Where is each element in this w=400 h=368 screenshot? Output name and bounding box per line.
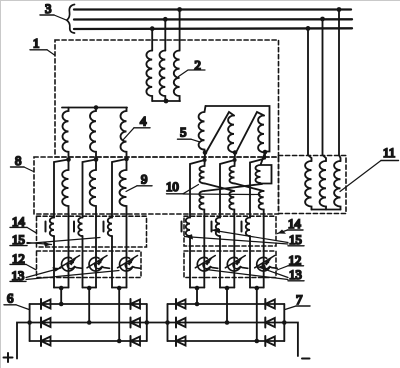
wire: right limb c bypass branch [250,152,265,288]
wire: limb a output drop [60,288,62,304]
svg-text:10: 10 [166,180,179,194]
wire: drop from L1 to winding 11 phase c [339,10,341,162]
winding 10 upper segment phase b [229,153,235,184]
wire: drop from L1 to winding 2 phase c [179,10,181,51]
winding 5 phase c [258,116,265,153]
saturable reactor 14 right limb a core bar [181,222,183,232]
saturable reactor 14 left limb a core bar [45,222,47,232]
wire: limb b output drop [88,288,90,323]
dashed box 14 left [37,216,147,247]
node: junction on L1 right [337,7,342,12]
control reactor 12 left limb b [87,256,110,272]
wire: right limb c pair joining bar [250,287,264,289]
wire: bridge 6 rail 3 [30,340,147,342]
saturable reactor 14 right limb c core bar [241,222,243,232]
dashed box 14 right [184,216,276,246]
wire: drop from L3 to winding 2 phase a [151,29,153,51]
wire: 3-phase bus line L3 [74,27,352,30]
node: junction on L3 right [306,26,311,31]
control reactor 12 left limb c [118,256,141,272]
dashed box 1 [55,40,279,157]
wire: limb c pair joining bar left group [112,287,127,289]
node: bridge 6 right bus junction [145,320,150,325]
control reactor 12 right limb b [225,256,248,272]
node: limb c output [117,286,122,291]
wire: limb a bypass branch left [54,160,69,288]
diode V9 bridge 7 [176,336,186,346]
node: winding 4 bar junction [94,105,99,110]
node: junction on L2 [163,17,168,22]
wire: bridge 6 left bus [29,304,31,341]
winding 10 lower segment phase c [259,191,264,288]
svg-text:9: 9 [141,173,147,187]
control reactor 12 right limb a [195,256,218,272]
node: limb a on rail 1 [59,302,64,307]
node: right limb b on rail 2 [225,320,230,325]
winding 9 phase a [62,160,68,288]
control reactor 12 right limb c [255,256,278,272]
wire: limb b pair joining bar left group [83,287,97,289]
winding 5 phase a [199,106,206,153]
wire: right limb b pair joining bar [220,287,234,289]
wire: limb a pair joining bar left group [54,287,69,289]
node: limb c on rail 3 [117,339,122,344]
node: limb a output [59,286,64,291]
wire: winding 2 star point bar [152,100,180,102]
wire: right limb b bypass branch [220,160,235,288]
secondary winding 4 phase a [63,108,69,160]
svg-text:8: 8 [15,154,21,168]
diode V5 bridge 6 [131,318,141,328]
terminal - [302,358,310,360]
diode V12 bridge 7 [265,336,275,346]
diode V7 bridge 7 [176,299,186,309]
svg-text:11: 11 [383,146,395,160]
wire: winding 5 diagonal link a-b [206,112,234,153]
wire: zigzag feed c to a [205,184,263,191]
brace for net 3 [67,5,75,34]
node: right limb a on rail 1 [195,302,200,307]
saturable reactor 14 left limb b coil [78,218,82,237]
dashed box 11 [279,156,347,214]
node: right limb b lower tap [233,158,237,162]
svg-text:13: 13 [289,268,302,282]
node: limb b output [87,286,92,291]
wire: zigzag diagonal b to c [235,183,264,191]
node: junction at bridge 6 left bus [27,320,32,325]
svg-text:15: 15 [12,233,25,247]
saturable reactor 14 right limb b core bar [211,222,213,232]
wire: bridge 6 right bus [146,304,148,341]
dashed box 12 left [37,251,142,278]
dashed box 8 [34,157,279,214]
wire: bridge 7 rail 1 [168,303,285,305]
wire: winding 4 top bar [62,107,127,109]
wire: bridge 7 right bus [283,304,285,341]
node: junction on L3 [150,26,155,31]
wire: winding 11 star bar [312,209,341,211]
svg-text:14: 14 [288,217,301,231]
node: junction on L1 [177,7,182,12]
winding 10 upper segment phase a [199,153,205,184]
wire: right limb c output drop [256,288,258,341]
saturable reactor 14 left limb c core bar [103,222,105,232]
wire: dc middle rail 2 [30,322,285,324]
node: limb c junction of windings 4/9 [124,157,129,162]
transformer primary winding 2 phase a [146,51,152,101]
wire: bridge 7 left bus [167,304,169,341]
wire: drop from L2 to winding 11 phase b [323,20,327,162]
wire: limb c output drop [118,288,120,341]
winding 10 upper segment phase c with hook [256,153,272,184]
node: winding 2 star point [164,99,169,104]
wire: zigzag diagonal a to b [205,183,235,191]
saturable reactor 14 left limb b core bar [73,222,75,232]
diode V8 bridge 7 [176,318,186,328]
wire: right limb b output drop [226,288,228,323]
svg-text:7: 7 [296,293,303,307]
node: limb b on rail 2 [87,320,92,325]
wire: bridge 7 rail 3 [168,340,285,342]
wire: drop from L2 to winding 2 phase b [164,20,166,51]
wire: positive output lead [17,323,30,359]
winding 10 lower segment phase a [199,191,204,288]
node: bridge 7 right bus junction [282,320,287,325]
wire: winding 5 diagonal link b-c [236,112,264,153]
dashed box 12 right [184,251,276,278]
wire: winding 5 top bar [206,106,270,152]
winding 9 phase c [120,159,127,288]
secondary winding 4 phase b [90,108,96,160]
node: right limb a lower tap [203,158,207,162]
wire: right limb a pair joining bar [190,287,204,289]
wire: right limb a output drop [196,288,198,304]
wire: limb b bypass branch left [83,160,97,288]
wire: right limb a bypass branch [190,160,205,288]
diode V2 bridge 6 [41,318,51,328]
node: right limb b output [225,286,230,291]
node: right limb a output [195,286,200,291]
diode V4 bridge 6 [131,299,141,309]
svg-text:1: 1 [33,37,39,51]
node: limb b junction of windings 4/9 [94,157,99,162]
winding 11 phase c [334,161,340,210]
secondary winding 4 phase c [121,108,127,160]
node: right limb b junction [233,150,238,155]
saturable reactor 14 left limb c coil [108,218,112,237]
transformer primary winding 2 phase b [160,51,166,101]
saturable reactor 14 left limb a coil [50,218,54,237]
transformer primary winding 2 phase c [174,51,180,101]
wire: negative output lead [284,323,298,357]
diode V3 bridge 6 [41,336,51,346]
winding 10 lower segment phase b [229,191,234,288]
node: right limb a junction [203,150,208,155]
control reactor 12 left limb a [60,256,83,272]
saturable reactor 14 right limb b coil [216,218,220,237]
saturable reactor 14 right limb a coil [186,218,190,237]
winding 9 phase b [90,160,96,288]
node: right limb c on rail 3 [254,339,259,344]
svg-text:4: 4 [140,115,147,129]
wire: bridge 6 rail 1 [30,303,147,305]
winding 5 phase b [228,116,235,153]
svg-text:15: 15 [289,233,302,247]
svg-text:5: 5 [180,126,186,140]
node: bridge 7 left bus junction [165,320,170,325]
diode V1 bridge 6 [41,299,51,309]
svg-text:3: 3 [45,2,51,16]
diode V11 bridge 7 [265,318,275,328]
node: junction on L2 right [320,17,325,22]
wire: limb c bypass branch left [112,159,127,288]
node: limb a junction of windings 4/9 [66,157,71,162]
wire: drop from L3 to winding 11 phase a [308,29,312,161]
svg-text:6: 6 [7,292,14,306]
winding 11 phase a [305,161,311,210]
winding 11 phase b [320,161,326,210]
node: right limb c output [254,286,259,291]
diode V10 bridge 7 [265,299,275,309]
terminal + [4,353,13,362]
diode V6 bridge 6 [131,336,141,346]
wire: 3-phase bus line L2 [74,18,352,21]
saturable reactor 14 right limb c coil [246,218,250,237]
scan edge artifacts [0,0,2,368]
wire: 3-phase bus line L1 [74,8,351,10]
node: right limb c junction [263,150,268,155]
